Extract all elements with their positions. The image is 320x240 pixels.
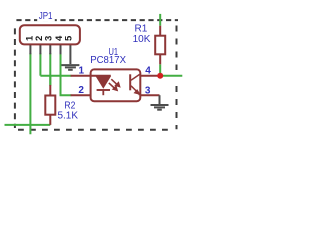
svg-text:1: 1 xyxy=(79,66,85,77)
opto U1 pin 1 lead xyxy=(71,75,95,77)
connector JP1 pin stubs xyxy=(30,44,70,64)
wire output net right xyxy=(160,75,182,77)
resistor R2 body xyxy=(45,96,55,115)
wire pin4 vertical and elbow xyxy=(61,53,72,95)
U1 transistor emitter xyxy=(131,86,139,95)
U1 LED cathode bar xyxy=(97,89,110,91)
wire pin1 vertical xyxy=(29,53,31,134)
wire R1 bottom to node xyxy=(159,64,161,75)
svg-text:PC817X: PC817X xyxy=(90,55,126,66)
junction node dot xyxy=(157,73,163,79)
dashed sheet border right lower xyxy=(176,86,178,129)
dashed sheet border top xyxy=(16,19,178,21)
dashed sheet border right upper xyxy=(176,26,178,71)
wire pin2 vertical xyxy=(39,53,41,76)
resistor R1 bottom lead xyxy=(159,54,161,64)
svg-text:2: 2 xyxy=(78,85,84,96)
svg-text:4: 4 xyxy=(145,66,151,77)
opto U1 pin 3 lead xyxy=(140,94,159,96)
wire node A horizontal xyxy=(40,75,71,77)
svg-text:R1: R1 xyxy=(135,24,148,35)
U1 transistor collector xyxy=(131,74,140,80)
U1 LED anode line xyxy=(91,75,111,77)
resistor R1 body xyxy=(155,36,165,55)
wire bottom net xyxy=(5,124,51,126)
resistor R2 bottom lead xyxy=(49,115,51,125)
ground (right, opto pin 3) xyxy=(151,95,169,110)
U1 LED triangle xyxy=(96,76,111,89)
resistor R2 top lead xyxy=(49,85,51,96)
resistor R2 top lead green part xyxy=(49,76,51,86)
U1 transistor base xyxy=(129,74,131,90)
dashed sheet border left xyxy=(14,28,16,128)
svg-text:5.1K: 5.1K xyxy=(58,111,79,122)
U1 emission arrow 1 xyxy=(111,79,119,86)
svg-text:JP1: JP1 xyxy=(39,11,53,22)
ground (left, JP1 pin5) xyxy=(61,65,79,70)
JP1 label mask xyxy=(37,13,55,22)
opto U1 pin 4 lead to node xyxy=(140,75,160,77)
dashed sheet border bottom xyxy=(18,129,174,131)
svg-text:3: 3 xyxy=(145,85,151,96)
svg-text:10K: 10K xyxy=(133,34,151,45)
U1 LED cathode wire xyxy=(102,91,104,96)
resistor R1 top lead xyxy=(159,26,161,36)
wire pin3 vertical xyxy=(49,53,51,86)
connector JP1 body xyxy=(20,25,80,44)
opto U1 body xyxy=(91,69,141,101)
U1 emission arrow 2 xyxy=(109,83,117,90)
opto U1 pin 2 lead xyxy=(71,94,91,96)
wire R1 top stub xyxy=(159,14,161,26)
svg-text:5: 5 xyxy=(63,35,74,41)
